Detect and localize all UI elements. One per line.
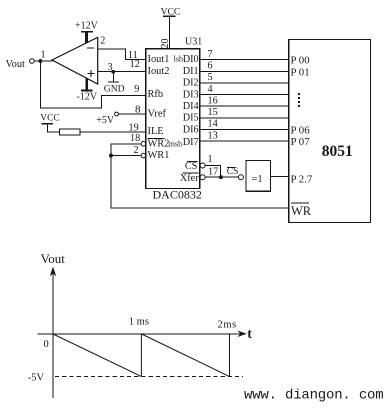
wire to 8051 WR	[111, 156, 289, 208]
svg-text:DI4: DI4	[183, 101, 199, 112]
svg-text:-5V: -5V	[28, 373, 45, 384]
svg-text:P 06: P 06	[291, 124, 311, 136]
wire pin3 to Iout2	[98, 71, 146, 73]
svg-text:U31: U31	[185, 37, 202, 48]
svg-text:CS: CS	[185, 161, 198, 172]
Xfer pin wire	[200, 166, 238, 179]
wire +5V to Vref	[118, 113, 145, 115]
node 1	[39, 49, 46, 63]
svg-text:8: 8	[135, 104, 141, 116]
svg-text:17: 17	[208, 166, 218, 177]
node CS/Xfer junction	[219, 175, 223, 179]
op-amp A1	[52, 37, 98, 84]
svg-text:DI3: DI3	[183, 89, 199, 100]
wire WR2	[111, 133, 146, 155]
pin label WR (8051)	[291, 203, 312, 218]
CS net label	[227, 167, 239, 177]
svg-text:Iout2: Iout2	[148, 66, 170, 77]
svg-text:2ms: 2ms	[218, 320, 237, 331]
node WR1/WR2 junction	[109, 154, 113, 158]
Vout terminal	[6, 59, 35, 70]
svg-text:www. diangon. com: www. diangon. com	[244, 388, 383, 404]
feedback wire to Rfb	[40, 61, 145, 108]
-12V supply	[77, 78, 98, 103]
overline CS	[187, 161, 198, 163]
svg-text:2: 2	[134, 145, 139, 156]
8051 U3	[289, 40, 371, 223]
wire pin2 to Iout1	[98, 49, 146, 60]
VCC rail left	[40, 114, 59, 132]
wire DI5	[200, 117, 289, 119]
svg-text:DI7: DI7	[183, 137, 199, 148]
svg-text:+12V: +12V	[75, 21, 99, 32]
wire gate to P2.7	[270, 175, 288, 177]
svg-text:12: 12	[130, 59, 140, 70]
VCC rail top	[161, 7, 181, 49]
svg-text:1: 1	[208, 154, 213, 165]
svg-text:9: 9	[134, 84, 139, 95]
+5V terminal	[96, 112, 118, 126]
DAC0832 U31	[146, 37, 202, 202]
svg-text:1 ms: 1 ms	[129, 317, 149, 328]
svg-text:Vout: Vout	[41, 251, 66, 266]
svg-text:VCC: VCC	[40, 114, 59, 124]
svg-text:16: 16	[208, 96, 218, 107]
svg-text:GND: GND	[104, 84, 125, 95]
svg-text:WR: WR	[291, 204, 312, 218]
svg-text:msb: msb	[169, 139, 182, 148]
ground	[104, 72, 125, 95]
svg-text:8051: 8051	[322, 143, 353, 160]
wire DI7	[200, 140, 289, 142]
sawtooth waveform	[53, 334, 230, 376]
svg-text:P 07: P 07	[291, 136, 311, 148]
node on + input	[111, 70, 115, 74]
DAC right pin labels	[174, 54, 200, 184]
waveform x-axis	[38, 327, 253, 342]
data pin numbers	[208, 49, 218, 141]
DAC left pin labels	[148, 54, 183, 161]
svg-text:2: 2	[100, 36, 105, 47]
overline Xfer	[183, 172, 199, 174]
svg-text:14: 14	[208, 119, 218, 130]
svg-text:=1: =1	[252, 174, 263, 185]
svg-text:-12V: -12V	[77, 92, 98, 103]
svg-text:6: 6	[208, 61, 213, 72]
svg-text:DI5: DI5	[183, 113, 199, 124]
svg-text:Xfer: Xfer	[180, 173, 199, 184]
wire resistor to ILE	[80, 131, 146, 133]
overline WR2	[148, 137, 165, 139]
ellipsis dots	[298, 93, 300, 107]
svg-text:1: 1	[41, 49, 46, 60]
svg-text:DI6: DI6	[183, 124, 199, 135]
svg-text:Vout: Vout	[6, 59, 26, 70]
svg-text:DI1: DI1	[183, 66, 199, 77]
-5V dashed level	[28, 373, 243, 384]
wire DI1	[200, 70, 289, 72]
svg-text:WR1: WR1	[148, 150, 170, 161]
svg-text:19: 19	[129, 123, 139, 134]
svg-text:Vref: Vref	[148, 109, 167, 120]
svg-text:DI0: DI0	[183, 54, 199, 65]
wire DI4	[200, 105, 289, 107]
svg-text:7: 7	[208, 49, 213, 60]
8051 port labels	[291, 55, 313, 186]
svg-text:WR2: WR2	[148, 138, 170, 149]
svg-text:20: 20	[160, 39, 171, 49]
svg-text:Rfb: Rfb	[148, 89, 164, 100]
wire DI6	[200, 128, 289, 130]
svg-text:5: 5	[208, 72, 213, 83]
svg-text:ILE: ILE	[148, 126, 164, 137]
svg-text:lsb: lsb	[174, 55, 183, 64]
svg-text:DI2: DI2	[183, 78, 199, 89]
svg-text:15: 15	[208, 107, 218, 118]
svg-text:P 01: P 01	[291, 66, 310, 78]
gate =1 U2	[238, 160, 270, 191]
wire DI3	[200, 94, 289, 96]
svg-text:P 2.7: P 2.7	[291, 174, 313, 186]
svg-text:P 00: P 00	[291, 55, 310, 67]
svg-text:CS: CS	[227, 167, 239, 177]
data bus wires DI0..DI7	[200, 60, 289, 141]
svg-text:+5V: +5V	[96, 115, 115, 126]
waveform y-axis	[41, 251, 66, 398]
svg-text:4: 4	[208, 84, 213, 95]
wire WR1	[111, 145, 146, 158]
svg-text:0: 0	[44, 339, 49, 350]
svg-text:DAC0832: DAC0832	[153, 188, 202, 202]
CS pin wire	[200, 154, 220, 177]
resistor R1	[59, 129, 80, 135]
wire DI0	[200, 59, 289, 61]
svg-text:13: 13	[208, 130, 218, 141]
svg-text:t: t	[247, 327, 252, 342]
wire DI2	[200, 82, 289, 84]
svg-text:18: 18	[130, 133, 140, 144]
+12V supply	[75, 21, 99, 44]
svg-text:Iout1: Iout1	[148, 54, 170, 65]
wire Vout to op-amp	[34, 60, 52, 62]
